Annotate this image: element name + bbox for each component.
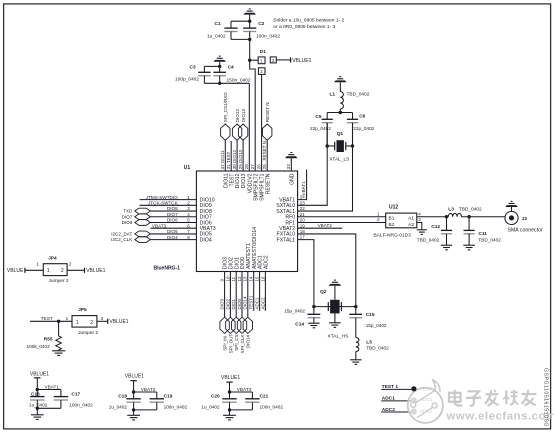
svg-text:TEST 1: TEST 1 (420, 386, 437, 392)
svg-text:DIO13: DIO13 (241, 108, 246, 122)
svg-text:100k_0402: 100k_0402 (27, 344, 51, 349)
svg-text:32 DIO11: 32 DIO11 (220, 150, 225, 169)
svg-text:DIO4: DIO4 (167, 235, 178, 240)
svg-text:SMPSFILT2: SMPSFILT2 (253, 173, 259, 201)
wire crystal top rail (327, 111, 352, 120)
svg-text:15p_0402: 15p_0402 (366, 323, 387, 328)
svg-text:14: 14 (249, 276, 254, 282)
wire C1-C2 top rail (231, 20, 251, 29)
wire net DIO1 (pin 11) (231, 272, 236, 318)
ground (C16/C17) (31, 415, 44, 420)
ground (C11) (463, 245, 475, 250)
U12 pin numbers (377, 212, 421, 223)
svg-text:12: 12 (237, 276, 242, 282)
ground (C20/C21) (223, 415, 236, 420)
capacitor C11 (464, 217, 502, 245)
capacitor C20 (201, 394, 236, 410)
wire C1-C2 bottom rail (231, 32, 251, 61)
svg-text:VBLUE: VBLUE (7, 268, 24, 274)
svg-text:2: 2 (69, 262, 72, 267)
svg-text:SPI_CS: SPI_CS (234, 334, 239, 350)
power flag (above C1/C2) (243, 8, 256, 21)
port I2C2_CLK (111, 237, 150, 243)
svg-text:1: 1 (76, 320, 79, 326)
svg-text:JTMS-SWTDIO: JTMS-SWTDIO (146, 195, 178, 200)
node TEST1 test point (381, 384, 416, 391)
svg-text:23: 23 (300, 200, 306, 205)
wire net JTCK-SWTCK (pin 2) (140, 201, 197, 206)
svg-text:VBAT2: VBAT2 (141, 387, 156, 392)
svg-text:DIO7: DIO7 (122, 214, 133, 219)
svg-text:C21: C21 (260, 394, 269, 400)
U1 right pin numbers (300, 195, 306, 240)
wire net VBAT2 (pin 19) (298, 223, 343, 228)
svg-text:C15: C15 (366, 312, 375, 318)
wire SMPSFILT2 (jog to pin 27) (250, 60, 256, 171)
pin 28 number (244, 164, 249, 170)
svg-text:BALF-NRG-01D3: BALF-NRG-01D3 (374, 233, 412, 239)
ground (U12 A2) (417, 230, 427, 235)
svg-text:VBAT3: VBAT3 (237, 387, 252, 392)
svg-text:25: 25 (262, 164, 267, 170)
svg-text:U12: U12 (389, 205, 398, 211)
svg-text:ADC1: ADC1 (255, 297, 260, 310)
svg-text:TBD_0402: TBD_0402 (347, 91, 370, 97)
wire net TEST (30, 316, 72, 323)
svg-text:www.elecfans.com: www.elecfans.com (446, 410, 554, 422)
svg-text:I2C2_CLK: I2C2_CLK (111, 237, 133, 242)
wire net DIO5 (pin 7) (150, 229, 196, 234)
svg-text:RESET N: RESET N (262, 141, 267, 160)
wire net DIO14 (pin 13) (243, 272, 248, 318)
svg-text:22: 22 (300, 206, 306, 211)
wire net DIO12 (pin 30) (232, 140, 237, 171)
svg-text:C19: C19 (164, 394, 173, 400)
svg-text:or a 0R0_0805 between 1- 3: or a 0R0_0805 between 1- 3 (273, 24, 335, 30)
svg-text:SPI_OUT: SPI_OUT (228, 334, 233, 354)
port DIO12 (232, 108, 241, 140)
svg-text:DIO14: DIO14 (246, 335, 251, 349)
svg-text:17: 17 (300, 235, 306, 240)
svg-text:Q2: Q2 (320, 289, 327, 295)
power flag VBLUE1 (C18/C19 group) (125, 374, 144, 392)
svg-text:XTAL_LS: XTAL_LS (329, 156, 349, 162)
svg-text:DIO12: DIO12 (235, 108, 240, 122)
svg-text:100p_0402: 100p_0402 (175, 77, 199, 83)
svg-text:ADC2: ADC2 (420, 408, 433, 414)
svg-text:33: 33 (286, 164, 291, 170)
capacitor C21 (245, 394, 283, 410)
capacitor C14 (284, 307, 320, 328)
svg-text:100n_0402: 100n_0402 (164, 404, 188, 409)
capacitor C1 (207, 21, 238, 39)
svg-text:100n_0402: 100n_0402 (256, 33, 280, 39)
jumper D1 (258, 49, 276, 75)
svg-text:DIO0: DIO0 (237, 298, 242, 309)
node SMPS junction (248, 59, 258, 62)
ground (Q2) (329, 323, 341, 328)
ground (C18/C19) (127, 415, 140, 420)
ground flag (U1 pin 33 GND) (285, 152, 298, 171)
svg-text:DIO7: DIO7 (167, 212, 178, 217)
svg-text:1u_0402: 1u_0402 (201, 404, 220, 409)
wire net VBAT3 (pin 6) (151, 223, 197, 228)
wire C3-C4 top rail (204, 65, 221, 73)
wire net TEST1 (pin 14) (249, 272, 254, 311)
svg-text:DIO2: DIO2 (225, 298, 230, 309)
svg-text:DIO3: DIO3 (220, 298, 225, 309)
svg-text:30 DIO12: 30 DIO12 (232, 150, 237, 170)
wire net DIO6 (pin 5) (150, 218, 196, 223)
wire net VBAT3 (228, 387, 253, 399)
power flag VBLUE (JP4 pin 1) (7, 268, 43, 274)
svg-text:C3: C3 (190, 65, 196, 71)
svg-text:1: 1 (47, 268, 50, 274)
svg-text:C6: C6 (359, 114, 365, 120)
note solder instructions (273, 17, 344, 30)
svg-text:J2: J2 (522, 216, 528, 222)
svg-text:1: 1 (36, 262, 39, 267)
inductor L3 (448, 207, 482, 217)
capacitor C19 (150, 394, 188, 410)
wire A2 to ground (417, 222, 422, 229)
svg-text:SMA connector: SMA connector (508, 227, 543, 233)
power flag (above L1) (334, 76, 347, 91)
wire C5 to SXTAL0 (326, 123, 328, 146)
svg-text:VBLUE1: VBLUE1 (109, 319, 128, 325)
svg-text:2: 2 (101, 316, 104, 321)
inductor L5 (356, 338, 389, 360)
svg-text:JTCK-SWTCK: JTCK-SWTCK (148, 201, 179, 206)
svg-text:ADC2: ADC2 (264, 255, 270, 269)
jumper JP4 (43, 255, 69, 284)
resistor R55 (27, 321, 62, 351)
svg-text:C1: C1 (215, 21, 221, 27)
wire C16/C17 bottom rail (36, 400, 61, 415)
svg-text:C18: C18 (118, 394, 127, 400)
wire net JTMS-SWTDIO (pin 1) (140, 195, 197, 200)
svg-text:VBLUE1: VBLUE1 (292, 58, 311, 64)
svg-text:SPI_CS1/RXD: SPI_CS1/RXD (223, 92, 228, 123)
svg-text:TEST1: TEST1 (249, 295, 254, 310)
wire net VBAT2 (132, 387, 157, 399)
svg-text:ADC1: ADC1 (420, 397, 433, 403)
svg-text:Jumper 2: Jumper 2 (49, 278, 69, 284)
wire C20/C21 bottom rail (228, 402, 253, 415)
svg-text:L1: L1 (330, 91, 336, 97)
wire SXTAL0 to C5 (pin 23) (298, 123, 328, 206)
port TXD (123, 208, 150, 214)
wire FXTAL0 (pin 18) (298, 234, 356, 307)
node ADC1 test point (381, 396, 417, 404)
U1 refdes (184, 165, 191, 171)
svg-text:TBD_0402: TBD_0402 (478, 238, 501, 243)
node ADC2 test point (381, 407, 417, 415)
svg-text:B1: B1 (389, 216, 395, 222)
svg-text:I2C2_DAT: I2C2_DAT (111, 232, 132, 237)
svg-text:150n_0402: 150n_0402 (227, 77, 251, 83)
svg-text:RESET N: RESET N (265, 102, 270, 122)
inductor L1 (330, 91, 370, 112)
crystal Q2 (320, 289, 348, 340)
svg-text:Solder a 10u_0805 between 1-: Solder a 10u_0805 between 1- 2 (273, 17, 344, 23)
svg-text:JP5: JP5 (78, 307, 87, 313)
svg-text:DIO8: DIO8 (167, 206, 178, 211)
wire net DIO7 (pin 4) (150, 212, 196, 217)
port RESET N (263, 102, 272, 140)
svg-text:15p_0402: 15p_0402 (284, 308, 305, 313)
wire C18/C19 bottom rail (132, 402, 157, 415)
svg-text:TBD_0402: TBD_0402 (459, 207, 482, 213)
svg-text:VBAT1: VBAT1 (301, 181, 306, 196)
wire net DIO0 (pin 12) (237, 272, 242, 318)
wire net DIO11 (pin 32) (220, 140, 225, 171)
U1 left pin names (200, 197, 216, 243)
port SPI_IN (220, 317, 229, 351)
svg-text:29 DIO13: 29 DIO13 (238, 150, 243, 170)
svg-text:19: 19 (300, 223, 306, 228)
svg-text:C12: C12 (431, 224, 440, 230)
svg-text:TBD_0402: TBD_0402 (366, 345, 389, 350)
svg-text:28: 28 (244, 164, 249, 170)
svg-text:100n_0402: 100n_0402 (260, 404, 284, 409)
jumper JP5 (72, 307, 98, 336)
wire net DIO8 (pin 3) (150, 206, 196, 211)
U1 right pin names (276, 197, 295, 243)
svg-text:100n_0402: 100n_0402 (69, 403, 93, 408)
svg-text:VBLUE1: VBLUE1 (30, 371, 49, 377)
capacitor C18 (109, 394, 141, 410)
wire C3-C4 bottom rail / VDD1V2 to pin 28 (204, 76, 249, 171)
U1 top pin names (223, 173, 295, 201)
power flag VBLUE1 (JP5 pin 2) (97, 316, 129, 325)
port SPI_CS1/RXD (221, 92, 230, 141)
svg-text:2: 2 (61, 268, 64, 274)
port SPI_OUT (226, 317, 235, 353)
svg-text:31 TEST: 31 TEST (226, 151, 231, 169)
connector J2 SMA (505, 211, 543, 233)
svg-text:27: 27 (250, 164, 255, 170)
svg-text:C14: C14 (295, 322, 304, 328)
capacitor C4 (214, 65, 251, 84)
port DIO6 (122, 220, 151, 226)
wire net VBAT1 (36, 384, 61, 396)
port SPI_CS (232, 317, 241, 351)
watermark chinese text (449, 390, 537, 406)
wire net DIO13 (pin 29) (238, 140, 243, 171)
svg-text:SPI_IN: SPI_IN (223, 336, 228, 351)
svg-text:DIO4: DIO4 (200, 237, 212, 243)
svg-text:1: 1 (66, 316, 69, 321)
power flag (above Q2) (329, 280, 342, 300)
wire RF0 to balun (pin 21) (298, 216, 386, 218)
svg-text:C4: C4 (228, 65, 234, 71)
svg-text:VBAT3: VBAT3 (152, 223, 167, 228)
wire SXTAL1 to C6 (pin 22) (298, 123, 353, 211)
svg-text:22p_0402: 22p_0402 (310, 126, 331, 131)
svg-text:10: 10 (225, 276, 230, 282)
svg-text:VBLUE1: VBLUE1 (221, 375, 240, 381)
port SPI_CLK (237, 317, 246, 353)
svg-text:B2: B2 (389, 222, 395, 228)
svg-text:Jumper 2: Jumper 2 (78, 330, 98, 336)
capacitor C17 (54, 391, 93, 407)
ground (R55) (52, 351, 65, 356)
JP4 outer pin numbers (36, 262, 72, 267)
svg-text:11: 11 (231, 276, 236, 281)
svg-text:FXTAL1: FXTAL1 (277, 237, 296, 243)
wire net DIO2 (pin 10) (225, 272, 230, 318)
wire net DIO4 (pin 8) (150, 235, 196, 240)
svg-text:GND: GND (289, 173, 295, 185)
wire net ADC2 (pin 16) (260, 272, 265, 311)
svg-text:15: 15 (255, 276, 260, 282)
svg-text:C20: C20 (211, 394, 220, 400)
svg-text:RESETN: RESETN (265, 173, 271, 194)
watermark logo (408, 380, 443, 423)
power flag VBLUE1 (JP4 pin 2) (67, 268, 105, 274)
capacitor C16 (29, 391, 48, 407)
svg-text:L3: L3 (448, 207, 454, 213)
svg-text:VBLUE1: VBLUE1 (125, 374, 144, 380)
port I2C2_DAT (111, 231, 150, 237)
port DIO13 (238, 108, 247, 140)
svg-text:SPI_CLK: SPI_CLK (240, 334, 245, 354)
svg-text:TBD_0402: TBD_0402 (417, 238, 440, 243)
svg-text:21: 21 (300, 212, 306, 217)
svg-text:GSPG1105161510SG: GSPG1105161510SG (542, 368, 548, 427)
power flag VBLUE1 (C20/C21 group) (221, 375, 240, 392)
svg-text:1u_0402: 1u_0402 (109, 404, 128, 409)
pin 27 number (250, 164, 255, 170)
svg-text:DIO14: DIO14 (243, 296, 248, 310)
svg-text:26: 26 (257, 164, 262, 170)
ground (C12) (441, 245, 453, 250)
svg-text:C16: C16 (31, 391, 40, 397)
wire Q2 to ground (334, 313, 336, 322)
watermark url (446, 410, 554, 422)
svg-text:Q1: Q1 (337, 131, 344, 137)
crystal Q1 (326, 131, 355, 162)
ground flag (J2 shield) (505, 201, 518, 211)
IC U1 body (196, 171, 297, 272)
svg-text:C11: C11 (478, 231, 487, 237)
svg-text:VBLUE1: VBLUE1 (86, 268, 105, 274)
svg-text:13: 13 (243, 276, 248, 282)
wire SMPSFILT1 (from D1 pin 2) (261, 74, 263, 171)
wire C6 to SXTAL1 (352, 123, 354, 146)
svg-text:DIO6: DIO6 (122, 220, 133, 225)
svg-text:C5: C5 (315, 114, 321, 120)
capacitor C12 (417, 217, 452, 245)
ground (C14) (308, 323, 320, 328)
svg-text:A1: A1 (408, 216, 414, 222)
wire net RESET N (pin 25) (262, 140, 267, 171)
svg-text:R55: R55 (44, 337, 53, 343)
svg-text:TEST: TEST (41, 316, 53, 322)
wire net ADC1 (pin 15) (255, 272, 260, 311)
svg-text:U1: U1 (184, 165, 191, 171)
svg-text:BlueNRG-1: BlueNRG-1 (154, 266, 181, 272)
power flag (above C3/C4) (213, 56, 226, 67)
svg-text:D1: D1 (260, 49, 266, 55)
wire L3 to J2 (462, 215, 505, 218)
svg-text:2: 2 (90, 320, 93, 326)
wire RF1 to balun (pin 20) (298, 221, 386, 223)
capacitor C3 (175, 65, 211, 83)
capacitor C15 (349, 307, 387, 338)
power flag VBLUE1 (at D1 pin 3) (276, 57, 311, 64)
svg-text:1u_0402: 1u_0402 (29, 403, 48, 408)
capacitor C2 (243, 21, 280, 39)
pin 26 number (257, 164, 262, 170)
svg-text:16: 16 (260, 276, 265, 282)
wire crystal HS rail (312, 305, 357, 308)
capacitor C5 (310, 114, 333, 131)
note plot code (542, 368, 548, 427)
svg-text:C17: C17 (71, 391, 80, 397)
svg-text:TXD: TXD (123, 209, 133, 214)
U1 bottom pin names (223, 227, 270, 269)
wire net TEST (pin 31) (226, 141, 231, 171)
power flag VBLUE1 (C16/C17 group) (30, 371, 49, 389)
svg-text:JP4: JP4 (48, 255, 57, 261)
svg-text:XTAL_HS: XTAL_HS (328, 333, 349, 339)
svg-text:18: 18 (300, 229, 306, 234)
port DIO14 (243, 317, 252, 348)
svg-text:DIO1: DIO1 (231, 298, 236, 309)
svg-text:VBAT2: VBAT2 (318, 223, 333, 228)
capacitor C6 (347, 114, 375, 131)
svg-text:A2: A2 (408, 222, 414, 228)
ground (L5) (350, 360, 362, 365)
port DIO7 (122, 214, 151, 220)
wire net VBAT1 (pin 24) (298, 170, 307, 200)
IC U12 balun (374, 205, 417, 239)
wire RF output (417, 215, 449, 218)
svg-text:DIO5: DIO5 (167, 229, 178, 234)
U1 part name (154, 266, 181, 272)
svg-text:DIO6: DIO6 (167, 218, 178, 223)
wire net DIO3 (pin 9) (220, 272, 225, 318)
svg-text:1u_0402: 1u_0402 (207, 33, 226, 39)
svg-text:C2: C2 (258, 21, 264, 27)
svg-text:20: 20 (300, 218, 306, 223)
svg-text:ADC2: ADC2 (260, 297, 265, 310)
svg-text:DIO13: DIO13 (241, 173, 247, 188)
svg-text:22p_0402: 22p_0402 (353, 126, 374, 131)
wire FXTAL1 (pin 17) (298, 240, 314, 307)
svg-text:VBAT1: VBAT1 (45, 384, 60, 389)
